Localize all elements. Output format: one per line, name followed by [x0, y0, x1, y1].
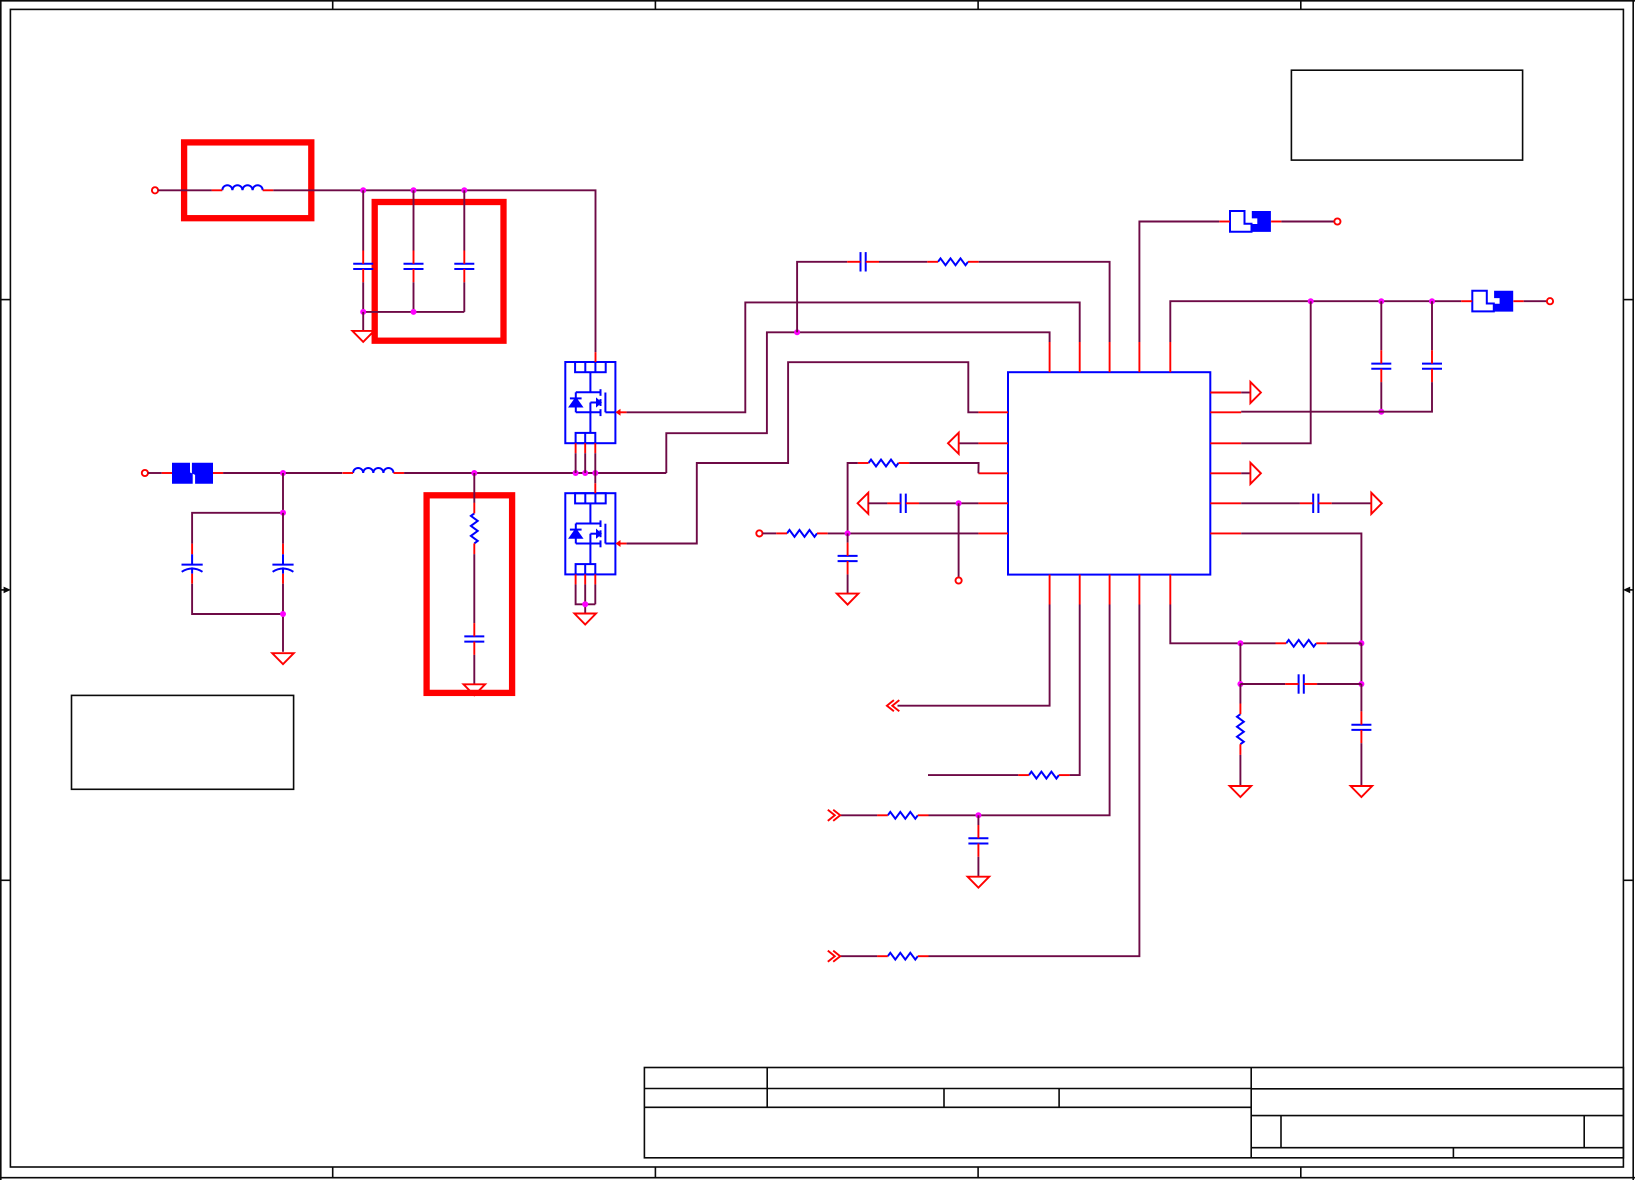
capacitor C7 [847, 252, 879, 271]
node junction [360, 187, 366, 193]
pin stub [595, 352, 597, 362]
node junction [411, 187, 417, 193]
port arrow (out) [1371, 493, 1382, 514]
resistor R9 [877, 953, 928, 960]
capacitor C13 [1285, 674, 1317, 693]
ground [1230, 786, 1252, 797]
wire [1360, 643, 1362, 684]
port P3 [756, 530, 762, 536]
node junction [592, 470, 598, 476]
wire [363, 311, 464, 313]
wire [1241, 502, 1300, 504]
capacitor C12 [1300, 494, 1332, 513]
resistor R6 [1237, 704, 1244, 755]
capacitor C4 (bulk) [182, 544, 203, 584]
wire [1070, 605, 1080, 776]
note box top-right [1291, 70, 1522, 160]
node junction [582, 470, 588, 476]
wire [413, 190, 415, 250]
wire [584, 584, 586, 613]
port P1 (top-left input) [152, 187, 158, 193]
wire [413, 282, 415, 312]
pin stub [576, 574, 596, 584]
node junction [471, 470, 477, 476]
wire [840, 814, 877, 816]
wire [223, 472, 342, 474]
ground [352, 331, 374, 342]
port arrow (in) [948, 433, 959, 454]
wire [1139, 222, 1219, 343]
node junction [1358, 640, 1364, 646]
wire [958, 503, 960, 577]
capacitor C5 (bulk) [272, 544, 293, 584]
capacitor C15 [968, 825, 988, 857]
wire [362, 312, 364, 331]
port P5 [1334, 218, 1340, 224]
node junction [280, 470, 286, 476]
wire [1170, 301, 1461, 342]
inductor L1 [212, 185, 274, 190]
wire [928, 774, 1018, 776]
wire [977, 857, 979, 877]
wire [192, 473, 283, 544]
capacitor C11 [1422, 350, 1442, 382]
wire [192, 584, 283, 614]
wire [1241, 301, 1311, 443]
wire [463, 282, 465, 312]
wire [979, 262, 1110, 342]
wire [929, 605, 1110, 816]
wire [848, 463, 858, 533]
capacitor C9 [887, 494, 919, 513]
IC U1 (buck controller) [1008, 372, 1210, 574]
wire [282, 584, 284, 652]
node junction [1237, 640, 1243, 646]
wire [879, 261, 927, 263]
ground [464, 684, 486, 695]
resistor R1 (snubber) [471, 503, 478, 554]
wire [1360, 743, 1362, 786]
wire [1524, 300, 1547, 302]
capacitor C3 [454, 251, 474, 283]
node junction [280, 510, 286, 516]
wire [362, 190, 364, 250]
pin stubs top [1050, 342, 1171, 372]
highlight box 3 (snubber) [427, 495, 512, 693]
node junction [1308, 298, 1314, 304]
wire [1241, 472, 1250, 474]
wire [594, 584, 596, 604]
capacitor C6 (snubber) [464, 623, 484, 655]
ground [837, 594, 859, 605]
node junction [845, 530, 851, 536]
wire [1327, 642, 1362, 644]
transistor Q2 (low-side MOSFET) [565, 493, 626, 574]
wire [404, 472, 666, 474]
node junction [1429, 298, 1435, 304]
port chevron (in) [887, 700, 899, 711]
capacitor C1 [353, 251, 373, 283]
port chevron (in) [828, 810, 840, 821]
wire [847, 574, 849, 593]
node junction [582, 601, 588, 607]
capacitor C10 [1371, 350, 1391, 382]
wire [1240, 683, 1285, 685]
pin stub [576, 443, 596, 453]
wire [584, 453, 586, 473]
wire [463, 190, 465, 250]
node junction [411, 309, 417, 315]
wire [763, 532, 777, 534]
wire [1431, 301, 1433, 350]
node junction [975, 812, 981, 818]
pin stub [594, 483, 596, 493]
wire [1332, 502, 1372, 504]
port arrow (in) [858, 493, 869, 514]
wire [977, 815, 979, 825]
ground [968, 877, 990, 888]
pin stubs right [1210, 393, 1241, 534]
wire [1241, 533, 1361, 643]
wire [919, 502, 978, 504]
wire [627, 362, 979, 543]
ground [1351, 786, 1373, 797]
capacitor C8 [838, 543, 858, 575]
wire [909, 463, 978, 473]
wire [1239, 755, 1241, 786]
capacitor C14 [1351, 711, 1371, 743]
wire [1239, 643, 1241, 684]
wire [1170, 605, 1275, 644]
resistor R8 [877, 812, 928, 819]
port arrow (out) [1250, 463, 1261, 484]
node junction [461, 187, 467, 193]
wire [1239, 684, 1241, 704]
node junction [573, 470, 579, 476]
resistor R3 [858, 460, 909, 467]
title block [644, 1068, 1623, 1158]
wire [828, 532, 979, 534]
node junction [1237, 681, 1243, 687]
wire [576, 584, 596, 604]
wire [666, 332, 1049, 473]
wire [627, 302, 1080, 412]
wire [797, 262, 847, 333]
port P2 (left input) [142, 470, 148, 476]
wire [594, 473, 596, 483]
wire [959, 442, 979, 444]
wire [1380, 382, 1382, 412]
wire [594, 453, 596, 473]
inductor L2 [343, 468, 405, 473]
wire [1360, 684, 1362, 711]
wire [929, 605, 1140, 957]
wire [575, 453, 577, 473]
wire [273, 190, 595, 352]
wire [362, 282, 364, 312]
fuse F2 [1219, 211, 1281, 232]
wire [473, 554, 475, 623]
wire [158, 189, 212, 191]
wire [840, 955, 877, 957]
resistor R2 [927, 258, 978, 265]
highlight box 2 (input caps) [375, 202, 504, 341]
port arrow (out) [1250, 382, 1261, 403]
wire [1317, 683, 1361, 685]
fuse F3 [1461, 291, 1524, 312]
port chevron (in) [828, 951, 840, 962]
wire [1241, 382, 1432, 412]
wire [148, 472, 162, 474]
ground [574, 614, 596, 625]
ground [272, 653, 294, 664]
resistor R7 [1018, 772, 1069, 779]
wire [473, 655, 475, 684]
fuse F1 [162, 463, 223, 484]
pin stubs left [978, 412, 1008, 533]
note box bottom-left [72, 695, 294, 789]
resistor R4 [776, 530, 827, 537]
wire [1380, 301, 1382, 350]
capacitor C2 [404, 251, 424, 283]
transistor Q1 (high-side MOSFET) [565, 362, 626, 443]
resistor R5 [1276, 640, 1327, 647]
port P4 [956, 577, 962, 583]
node junction [1378, 409, 1384, 415]
wire [847, 533, 849, 542]
wire [868, 502, 887, 504]
node junction [280, 611, 286, 617]
wire [1241, 392, 1250, 394]
wire [898, 605, 1050, 706]
node junction [1378, 298, 1384, 304]
port P6 [1547, 298, 1553, 304]
node junction [1358, 681, 1364, 687]
wire [282, 513, 284, 544]
pin stubs bottom [1050, 575, 1171, 605]
highlight box 1 (input filter) [184, 142, 311, 218]
node junction [794, 329, 800, 335]
wire [473, 473, 475, 503]
node junction [360, 309, 366, 315]
wire [1281, 221, 1334, 223]
node junction [956, 500, 962, 506]
